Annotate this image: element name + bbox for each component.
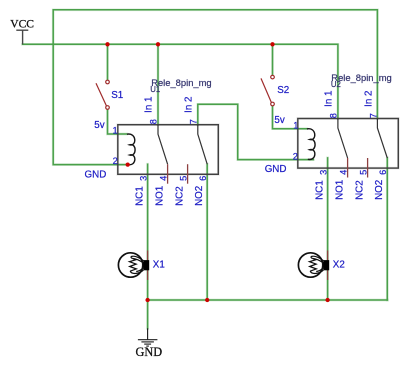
- svg-text:Rele_8pin_mg: Rele_8pin_mg: [151, 77, 211, 88]
- svg-text:1: 1: [293, 121, 298, 131]
- svg-text:VCC: VCC: [10, 19, 34, 31]
- svg-text:In 1: In 1: [324, 91, 335, 107]
- svg-text:X2: X2: [333, 260, 345, 271]
- svg-text:5v: 5v: [94, 120, 104, 131]
- svg-text:GND: GND: [136, 345, 163, 359]
- svg-text:NO2: NO2: [194, 186, 205, 206]
- svg-text:S2: S2: [277, 85, 289, 96]
- svg-text:U1: U1: [150, 85, 160, 94]
- svg-text:7: 7: [368, 113, 378, 118]
- svg-text:4: 4: [338, 170, 348, 175]
- svg-text:GND: GND: [265, 164, 287, 175]
- svg-text:7: 7: [189, 119, 199, 124]
- svg-text:5: 5: [358, 170, 368, 175]
- svg-text:4: 4: [158, 176, 168, 181]
- svg-text:GND: GND: [85, 170, 107, 181]
- svg-text:In 2: In 2: [363, 91, 374, 107]
- svg-text:6: 6: [198, 176, 208, 181]
- svg-text:In 2: In 2: [183, 97, 194, 113]
- svg-text:S1: S1: [111, 90, 123, 101]
- svg-text:NC2: NC2: [175, 186, 186, 206]
- svg-text:NC1: NC1: [135, 186, 146, 206]
- svg-text:3: 3: [318, 170, 328, 175]
- svg-text:X1: X1: [153, 259, 165, 270]
- svg-text:NC2: NC2: [355, 180, 366, 200]
- svg-text:1: 1: [113, 126, 118, 136]
- svg-text:2: 2: [113, 156, 118, 166]
- svg-text:3: 3: [138, 176, 148, 181]
- svg-text:NC1: NC1: [315, 180, 326, 200]
- svg-text:U2: U2: [331, 80, 341, 89]
- svg-text:5v: 5v: [274, 115, 284, 126]
- svg-text:NO2: NO2: [374, 180, 385, 200]
- svg-text:NO1: NO1: [155, 186, 166, 206]
- svg-text:NO1: NO1: [335, 180, 346, 200]
- svg-text:8: 8: [149, 119, 159, 124]
- svg-text:6: 6: [378, 170, 388, 175]
- svg-text:2: 2: [293, 152, 298, 162]
- svg-text:8: 8: [329, 113, 339, 118]
- svg-text:In 1: In 1: [144, 97, 155, 113]
- svg-text:5: 5: [178, 176, 188, 181]
